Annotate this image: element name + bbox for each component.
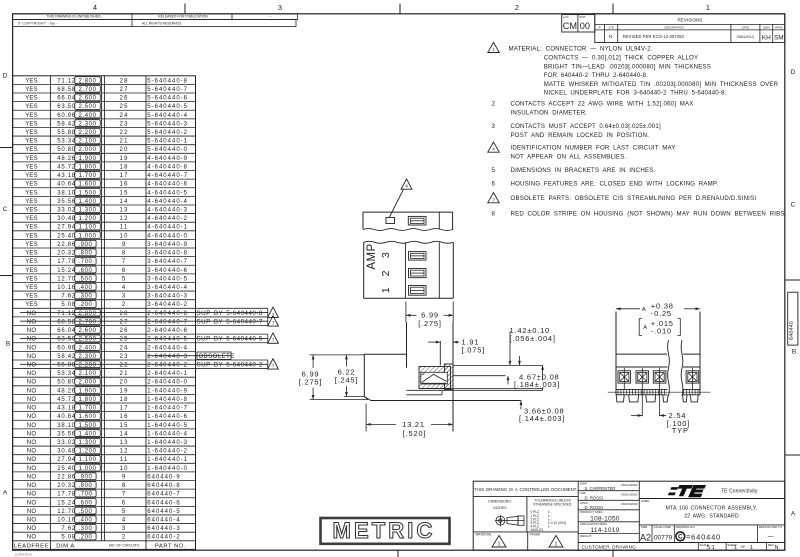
zone tick right y=280 [785,279,800,281]
svg-text:2.100: 2.100 [79,371,97,377]
svg-text:5-640440-8: 5-640440-8 [147,78,188,84]
svg-text:2.700: 2.700 [79,319,97,325]
svg-text:13: 13 [120,208,129,214]
svg-text:2-640440-5: 2-640440-5 [147,337,188,343]
table row NO-15 circuits part 1-640440-5 [13,419,196,421]
table row YES-21 circuits part 5-640440-1 [13,135,196,137]
svg-text:METRIC: METRIC [333,518,436,543]
svg-text:15: 15 [120,423,129,429]
table row NO-5 circuits part 640440-5 [13,505,196,507]
svg-text:.800: .800 [78,251,92,257]
svg-text:A2: A2 [640,533,651,543]
svg-text:7: 7 [272,321,275,326]
svg-text:NO: NO [27,406,37,412]
zone tick left y=147.5 [0,147,13,149]
svg-text:66.04: 66.04 [57,328,76,334]
svg-text:19: 19 [120,388,129,394]
svg-text:2-640440-7: 2-640440-7 [147,319,188,325]
svg-text:1-640440-3: 1-640440-3 [147,440,188,446]
svg-text:18: 18 [120,397,129,403]
svg-text:20.32: 20.32 [57,251,76,257]
svg-text:RED COLOR STRIPE ON HOUSING (N: RED COLOR STRIPE ON HOUSING (NOT SHOWN) … [511,211,787,218]
top view contact window 3 [409,252,427,261]
svg-text:.700: .700 [78,492,92,498]
svg-text:2: 2 [515,3,519,12]
svg-text:3-640440-7: 3-640440-7 [147,259,188,265]
dimension 6.99 line and arrows [406,314,417,316]
svg-text:1.500: 1.500 [79,423,97,429]
svg-text:7: 7 [272,338,275,343]
svg-text:4-640440-9: 4-640440-9 [147,156,188,162]
svg-text:[.245]: [.245] [335,375,359,384]
third angle projection symbol [495,515,525,526]
dimension 2.54 extension lines [641,389,643,416]
svg-text:14: 14 [120,431,129,437]
svg-text:DIM A: DIM A [56,543,75,549]
table row YES-25 circuits part 5-640440-5 [13,101,196,103]
svg-text:15.24: 15.24 [57,500,76,506]
svg-text:3-640440-5: 3-640440-5 [147,276,188,282]
svg-text:1.300: 1.300 [79,208,97,214]
svg-text:21: 21 [120,371,129,377]
svg-text:1.700: 1.700 [79,406,97,412]
svg-text:5-640440-2: 5-640440-2 [147,130,188,136]
svg-text:2.000: 2.000 [79,380,97,386]
svg-text:45.72: 45.72 [57,164,76,170]
svg-text:TYP: TYP [672,426,689,435]
table row NO-9 circuits part 640440-9 [13,471,196,473]
triangle 4 callout marker [401,179,412,189]
dimension A +0.38/-0.25 [616,308,640,310]
svg-text:LOC: LOC [563,15,569,19]
svg-text:DESCRIPTION: DESCRIPTION [664,25,683,29]
svg-text:20: 20 [120,380,129,386]
table row NO-28 circuits part 2-640440-8 [13,307,196,309]
svg-text:1-640440-7: 1-640440-7 [147,406,188,412]
svg-text:YES: YES [25,139,38,145]
standoff 2 [629,395,639,402]
obsolete box row 23 [197,352,231,359]
svg-text:1.100: 1.100 [79,457,97,463]
obsolete triangle 7 marker row 27 [268,316,279,326]
svg-text:C: C [3,206,8,213]
svg-text:1.500: 1.500 [79,190,97,196]
svg-text:5: 5 [122,276,127,282]
table row NO-14 circuits part 1-640440-4 [13,428,196,430]
svg-text:DWN: DWN [763,25,770,29]
svg-text:6: 6 [492,180,496,187]
front view rib row [617,389,619,394]
svg-text:5-640440-1: 5-640440-1 [147,139,188,145]
svg-text:27.94: 27.94 [57,457,76,463]
strike line row 22 [20,363,268,365]
svg-text:NO: NO [27,414,37,420]
standoff 6 [690,395,698,402]
svg-text:33.02: 33.02 [57,440,76,446]
svg-text:58.42: 58.42 [57,121,76,127]
svg-text:DATE: DATE [742,25,749,29]
table row YES-22 circuits part 5-640440-2 [13,126,196,128]
svg-text:AMP: AMP [366,243,378,269]
svg-text:2.800: 2.800 [79,311,97,317]
svg-text:.200: .200 [78,302,92,308]
svg-text:CONTACTS — 0.30[.012] THICK CO: CONTACTS — 0.30[.012] THICK COPPER ALLOY [544,55,698,62]
svg-text:63.50: 63.50 [57,337,76,343]
svg-text:12.70: 12.70 [57,276,76,282]
table row NO-20 circuits part 2-640440-0 [13,376,196,378]
table row YES-10 circuits part 4-640440-0 [13,230,196,232]
svg-text:27.94: 27.94 [57,225,76,231]
table row YES-2 circuits part 3-640440-2 [13,299,196,301]
svg-text:60.96: 60.96 [57,345,76,351]
svg-text:=640440: =640440 [686,532,721,541]
svg-text:D: D [3,73,8,80]
svg-text:1.900: 1.900 [79,388,97,394]
svg-text:1-640440-5: 1-640440-5 [147,423,188,429]
svg-text:YES: YES [25,104,38,110]
svg-text:1.400: 1.400 [79,431,97,437]
svg-text:.500: .500 [78,276,92,282]
svg-text:1: 1 [380,287,392,293]
svg-text:17: 17 [120,173,129,179]
svg-text:2.500: 2.500 [79,337,97,343]
svg-text:3-640440-6: 3-640440-6 [147,268,188,274]
svg-text:5.08: 5.08 [61,535,75,541]
title block internal lines [577,481,579,550]
svg-text:REVISED PER ECO-12-007493: REVISED PER ECO-12-007493 [623,34,685,39]
obsolete triangle 7 marker row 28 [268,307,279,317]
front view body top edge [616,353,667,355]
svg-text:1: 1 [750,545,753,551]
svg-text:48.26: 48.26 [57,388,76,394]
svg-text:12: 12 [120,449,129,455]
svg-text:-: - [548,528,549,532]
svg-text:24: 24 [120,113,129,119]
svg-text:53.34: 53.34 [57,139,76,145]
svg-text:20.32: 20.32 [57,483,76,489]
svg-text:10.16: 10.16 [57,518,76,524]
svg-text:7: 7 [122,492,127,498]
svg-text:YES: YES [25,182,38,188]
svg-text:7: 7 [272,364,275,369]
svg-text:1-640440-4: 1-640440-4 [147,431,188,437]
svg-text:4-640440-2: 4-640440-2 [147,216,188,222]
dimension text 4.67±0.08 / .184±.003 [513,381,571,388]
svg-text:2.800: 2.800 [79,78,97,84]
dimension 4.67 vertical line with arrows [542,365,544,390]
table row NO-7 circuits part 640440-7 [13,488,196,490]
dimension 6.99 left side [310,354,365,356]
svg-text:NO: NO [27,380,37,386]
svg-text:22 AWG, STANDARD: 22 AWG, STANDARD [684,514,739,520]
svg-text:YES: YES [25,130,38,136]
svg-text:4: 4 [122,285,127,291]
svg-text:SIZE: SIZE [641,525,647,529]
svg-text:D. ROSSI: D. ROSSI [585,495,603,500]
svg-text:17: 17 [120,406,129,412]
svg-text:S. CARPENTER: S. CARPENTER [585,486,616,491]
svg-text:23: 23 [120,121,129,127]
svg-text:A: A [642,307,646,313]
svg-text:REV: REV [768,543,774,547]
table row NO-23 circuits part 2-640440-3 [13,350,196,352]
svg-text:2-640440-0: 2-640440-0 [147,380,188,386]
svg-text:4-640440-6: 4-640440-6 [147,182,188,188]
svg-text:YES: YES [25,78,38,84]
table row NO-3 circuits part 640440-3 [13,523,196,525]
svg-text:66.04: 66.04 [57,96,76,102]
note 7 triangle [488,193,500,203]
table row NO-6 circuits part 640440-6 [13,497,196,499]
dimension 6.22 [344,396,365,398]
svg-text:11: 11 [120,225,129,231]
svg-text:MTA 100 CONNECTOR ASSEMBLY,: MTA 100 CONNECTOR ASSEMBLY, [666,506,758,512]
table row NO-21 circuits part 2-640440-1 [13,368,196,370]
svg-text:27: 27 [120,87,129,93]
svg-text:4-640440-7: 4-640440-7 [147,173,188,179]
svg-text:MATERIAL: CONNECTOR — NYLON U: MATERIAL: CONNECTOR — NYLON UL94V-2. [509,46,653,53]
svg-text:.600: .600 [78,268,92,274]
svg-text:23: 23 [120,354,129,360]
svg-text:2.500: 2.500 [79,104,97,110]
svg-text:2.400: 2.400 [79,113,97,119]
svg-text:YES: YES [25,190,38,196]
strike line row 28 [20,312,268,314]
table row NO-25 circuits part 2-640440-5 [13,333,196,335]
zone tick left y=275.5 [0,275,13,277]
svg-text:NO: NO [27,319,37,325]
svg-text:10.16: 10.16 [57,285,76,291]
svg-text:LTR: LTR [609,25,614,29]
svg-text:2.600: 2.600 [79,96,97,102]
svg-text:SM: SM [774,34,784,41]
svg-text:THIS DRAWING IS A CONTROLLED D: THIS DRAWING IS A CONTROLLED DOCUMENT. [474,487,577,492]
svg-text:YES: YES [25,199,38,205]
table row YES-18 circuits part 4-640440-8 [13,161,196,163]
svg-text:D: D [791,69,796,76]
svg-text:YES: YES [25,173,38,179]
svg-text:25.40: 25.40 [57,466,76,472]
svg-text:22.86: 22.86 [57,242,76,248]
front view outer edges [615,312,617,355]
svg-text:10: 10 [120,466,129,472]
svg-text:OTHERWISE SPECIFIED:: OTHERWISE SPECIFIED: [533,503,572,507]
table row YES-8 circuits part 3-640440-8 [13,247,196,249]
svg-text:30.48: 30.48 [57,216,76,222]
svg-text:.800: .800 [78,483,92,489]
svg-text:OF: OF [741,545,746,549]
svg-text:1.300: 1.300 [79,440,97,446]
svg-text:4-640440-5: 4-640440-5 [147,190,188,196]
svg-text:68.58: 68.58 [57,319,76,325]
svg-text:C: C [791,202,796,209]
svg-text:21: 21 [120,139,129,145]
standoff 4 [663,395,668,402]
front view contact 2 [636,371,649,383]
svg-text:PRODUCT SPEC: PRODUCT SPEC [580,510,603,514]
svg-text:NO: NO [27,431,37,437]
table row NO-22 circuits part 2-640440-2 [13,359,196,361]
dimension 6.99 extension lines [405,302,407,323]
dimension 2.54 arrows [631,415,642,417]
svg-text:FOR 640440-2 THRU 2-640440-8.: FOR 640440-2 THRU 2-640440-8. [544,72,648,79]
note 4 triangle [488,142,500,152]
svg-text:2.200: 2.200 [79,363,97,369]
svg-text:2.300: 2.300 [79,354,97,360]
svg-text:3-640440-4: 3-640440-4 [147,285,188,291]
svg-text:28: 28 [120,311,129,317]
svg-text:2: 2 [492,101,496,108]
svg-text:B: B [6,341,10,348]
svg-text:YES: YES [25,259,38,265]
svg-text:[.075]: [.075] [462,346,486,355]
top view contact window 2 [409,269,427,278]
svg-text:43.18: 43.18 [57,406,76,412]
TE logo [668,485,706,497]
svg-text:.300: .300 [78,526,92,532]
parts table outer box [13,76,196,550]
svg-text:25: 25 [120,337,129,343]
svg-text:25: 25 [120,104,129,110]
svg-text:38.10: 38.10 [57,190,76,196]
svg-text:60.96: 60.96 [57,113,76,119]
svg-text:PART NO.: PART NO. [155,543,186,549]
svg-text:DIMENSIONS IN BRACKETS ARE IN: DIMENSIONS IN BRACKETS ARE IN INCHES. [511,167,656,174]
svg-text:4-640440-0: 4-640440-0 [147,233,188,239]
table row NO-12 circuits part 1-640440-2 [13,445,196,447]
svg-text:4-640440-1: 4-640440-1 [147,225,188,231]
svg-text:640440-6: 640440-6 [147,500,180,506]
svg-text:17.78: 17.78 [57,259,76,265]
sup-by extension row 25 [196,333,268,335]
svg-text:CONTACTS MUST ACCEPT 0.64±0.03: CONTACTS MUST ACCEPT 0.64±0.03[.025±.001… [511,123,661,130]
svg-text:5.08: 5.08 [61,302,75,308]
svg-text:NO: NO [27,397,37,403]
svg-text:26: 26 [120,96,129,102]
table row YES-11 circuits part 4-640440-1 [13,221,196,223]
table row YES-23 circuits part 5-640440-3 [13,118,196,120]
strike line row 27 [20,320,268,322]
svg-text:.700: .700 [78,259,92,265]
top view contact window 1 [409,286,427,296]
svg-text:22.86: 22.86 [57,474,76,480]
svg-text:25.40: 25.40 [57,233,76,239]
svg-text:27: 27 [120,319,129,325]
table row YES-15 circuits part 4-640440-5 [13,187,196,189]
svg-text:.200: .200 [78,535,92,541]
svg-text:1-640440-8: 1-640440-8 [147,397,188,403]
svg-text:HOUSING FEATURES ARE: CLOSED E: HOUSING FEATURES ARE: CLOSED END WITH LO… [511,180,719,187]
svg-text:1.600: 1.600 [79,182,97,188]
svg-text:00779: 00779 [654,535,673,542]
svg-text:50.80: 50.80 [57,147,76,153]
table row NO-19 circuits part 1-640440-9 [13,385,196,387]
svg-text:09JUN2000: 09JUN2000 [621,483,638,487]
strike line row 25 [20,337,268,339]
svg-text:RESTRICTED TO: RESTRICTED TO [759,525,783,529]
svg-text:35.56: 35.56 [57,199,76,205]
svg-text:2.300: 2.300 [79,121,97,127]
dimension 3.66 leader [520,401,522,410]
svg-text:3-640440-3: 3-640440-3 [147,294,188,300]
svg-text:NO. OF CIRCUITS: NO. OF CIRCUITS [109,544,140,548]
svg-text:NO: NO [27,371,37,377]
svg-text:—: — [768,535,774,541]
svg-text:4: 4 [93,3,97,12]
front view cavity band lines [616,366,668,368]
svg-text:68.58: 68.58 [57,87,76,93]
svg-text:22: 22 [120,363,129,369]
svg-text:A: A [3,490,8,497]
svg-text:5-640440-5: 5-640440-5 [147,104,188,110]
svg-text:NO: NO [27,354,37,360]
svg-text:45.72: 45.72 [57,397,76,403]
svg-text:[.056±.004]: [.056±.004] [510,334,556,343]
svg-text:INSULATION DIAMETER.: INSULATION DIAMETER. [511,109,588,116]
svg-text:DRAWING NO: DRAWING NO [676,525,696,529]
sup-by extension row 27 [196,316,268,318]
svg-text:C: C [678,534,683,541]
svg-text:5:1: 5:1 [707,545,715,551]
svg-text:1.000: 1.000 [79,233,97,239]
svg-text:30.48: 30.48 [57,449,76,455]
svg-text:3: 3 [122,294,127,300]
svg-text:2.600: 2.600 [79,328,97,334]
LOC/DIST boxes CM 00 [562,15,595,32]
svg-text:12.70: 12.70 [57,509,76,515]
svg-text:.400: .400 [78,285,92,291]
svg-text:NO: NO [27,457,37,463]
svg-text:114-1019: 114-1019 [591,527,620,534]
svg-text:1: 1 [706,3,710,12]
unpublished header row 1 box [13,14,298,20]
svg-text:640440-4: 640440-4 [147,518,180,524]
zone tick top x=613 [612,4,614,14]
svg-text:1.700: 1.700 [79,173,97,179]
svg-text:NO: NO [27,509,37,515]
svg-text:1-640440-6: 1-640440-6 [147,414,188,420]
zone tick bottom x=398 [397,550,399,557]
parts table column lines [49,76,51,550]
svg-text:.900: .900 [78,474,92,480]
svg-text:5-640440-6: 5-640440-6 [147,96,188,102]
svg-text:1: 1 [734,545,737,551]
side view tower edges [406,322,408,368]
zone tick top x=400 [399,4,401,14]
svg-text:YES: YES [25,242,38,248]
svg-text:.900: .900 [78,242,92,248]
sup-by extension row 28 [196,307,268,309]
svg-text:-0.25: -0.25 [651,309,672,318]
svg-text:640440-3: 640440-3 [147,526,180,532]
svg-text:YES: YES [25,121,38,127]
fragment internal wall line [438,212,440,229]
table row YES-16 circuits part 4-640440-6 [13,178,196,180]
svg-text:28: 28 [120,78,129,84]
svg-text:1.200: 1.200 [79,449,97,455]
dimension 1.91 arrows [428,341,440,343]
svg-text:YES: YES [25,208,38,214]
svg-text:2.200: 2.200 [79,130,97,136]
svg-text:N: N [609,34,613,40]
svg-text:5-640440-4: 5-640440-4 [147,113,188,119]
svg-text:-.- .: -.- . [268,14,273,18]
svg-text:A: A [643,325,647,331]
table row NO-16 circuits part 1-640440-6 [13,411,196,413]
svg-text:5: 5 [492,167,496,174]
svg-text:55.88: 55.88 [57,363,76,369]
table row NO-8 circuits part 640440-8 [13,480,196,482]
